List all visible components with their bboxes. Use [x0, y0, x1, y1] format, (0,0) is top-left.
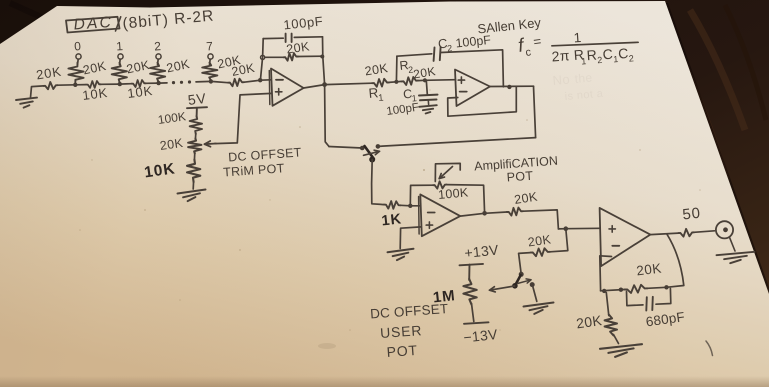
switch S1 blade — [365, 146, 374, 159]
switch S1 arrow — [364, 150, 380, 155]
wire node2 to U2 plus — [425, 79, 456, 82]
wire feedback right riser — [323, 37, 325, 85]
node feedback right junction — [320, 55, 324, 59]
label C2 100pF — [437, 33, 492, 54]
wire fb to 20K d (to ground) — [606, 293, 609, 316]
wire S1 pivot down to 1K — [372, 160, 384, 205]
node U1 output — [322, 82, 327, 87]
wire cap 100pF left — [263, 37, 283, 39]
wire fb right riser to output — [667, 234, 684, 287]
svg-text:USER: USER — [380, 322, 423, 341]
node R1-R2 junction — [394, 80, 398, 84]
node bit 2 junction — [156, 81, 160, 85]
resistor 1K — [384, 201, 401, 209]
svg-text:100K: 100K — [438, 185, 470, 202]
wire node2 down to C1 — [426, 80, 427, 94]
resistor 100K trim — [190, 116, 202, 134]
label 20K bit 7 — [216, 53, 242, 72]
wire U1 inverting input — [260, 79, 271, 81]
wire U3 output — [460, 213, 484, 216]
op-amp U1 — [269, 69, 303, 106]
ground U3 noninverting — [388, 249, 414, 260]
ground left termination — [16, 98, 37, 108]
+13V bar — [460, 264, 484, 280]
wire C2 left — [397, 54, 432, 56]
label 20K U4 feedback — [636, 261, 663, 279]
resistor R2 20K sallen-key — [402, 77, 419, 85]
label 20K d — [575, 312, 603, 331]
bit 0 terminal circle — [76, 54, 81, 59]
ground C1 — [419, 105, 437, 113]
node U2 output — [507, 85, 511, 89]
ground trim chain — [178, 190, 206, 202]
label DC OFFSET trim — [228, 145, 302, 164]
title box DAC — [66, 17, 121, 33]
label POT user — [386, 342, 418, 360]
svg-text:7: 7 — [206, 39, 214, 53]
wire node1 up to C2 — [395, 56, 398, 82]
label 20K R2 — [412, 64, 436, 81]
resistor 100K feedback pot — [433, 181, 447, 188]
resistor 20K bit 1 (vertical) — [112, 63, 127, 84]
bit 7 terminal label — [206, 39, 214, 53]
node S2 pivot — [512, 283, 518, 289]
resistor 20K bit 0 (vertical) — [68, 63, 83, 84]
wire U3 noninverting to ground — [400, 227, 421, 249]
capacitor C1 plates — [419, 95, 438, 101]
wire 1K to U3 inverting node — [401, 204, 411, 207]
node bit 1 junction — [118, 82, 122, 86]
wire bus node1-10K — [120, 83, 132, 85]
label 100K pot — [438, 185, 470, 202]
wire 100K fb right — [447, 185, 485, 214]
node R2-C1 junction — [423, 78, 427, 82]
label DC OFFSET user — [370, 301, 449, 321]
capacitor C2 — [434, 47, 441, 61]
resistor 50 ohm out — [679, 229, 695, 237]
wire 20K fb right — [298, 55, 322, 57]
svg-text:POT: POT — [506, 169, 534, 185]
title text (8biT) R-2R — [122, 8, 215, 33]
label +13V — [464, 241, 500, 261]
node S1 right contact — [376, 144, 381, 149]
wire corner to U4 node — [558, 228, 565, 230]
wire 100K-20K trim — [194, 133, 196, 140]
label TRIM POT — [223, 161, 285, 179]
ellipsis dots on bus — [172, 80, 191, 84]
node U1 inverting input — [258, 78, 262, 82]
wire C1 to ground — [427, 100, 429, 105]
paper specks — [79, 59, 701, 331]
pot wiper loop 100K — [435, 163, 460, 181]
op-amp U3 — [419, 194, 461, 236]
wire U1 output — [304, 85, 325, 88]
bit 1 terminal label — [116, 39, 124, 53]
erased pencil ghost — [552, 70, 604, 103]
output jack connector — [716, 221, 733, 238]
stray pen mark — [706, 341, 713, 356]
label SAllen Key — [477, 15, 542, 37]
label AmplifiCATION — [474, 154, 559, 174]
-13V bar — [464, 322, 489, 324]
label 5V — [187, 90, 208, 108]
label 1M (bold) — [432, 287, 456, 306]
paper bottom edge shadow — [0, 376, 769, 387]
ground jack — [717, 252, 755, 263]
formula denominator — [551, 45, 634, 67]
label 20K series — [230, 61, 256, 79]
formula fc= — [517, 33, 543, 59]
svg-text:No: No — [552, 72, 571, 88]
svg-text:2π R: 2π R — [551, 46, 585, 64]
wire U3 feedback riser — [410, 185, 433, 206]
label 20K R1 — [364, 61, 390, 79]
resistor 1M user pot — [463, 279, 476, 305]
ground S2 — [524, 303, 554, 314]
label 20K b — [527, 232, 552, 249]
ground U4 feedback — [600, 344, 642, 357]
wire U2 output — [490, 85, 534, 87]
op-amp U4 — [600, 208, 651, 266]
resistor 20K series (bus to U1) — [228, 79, 244, 87]
bit 7 lead wire — [209, 59, 212, 64]
switch S2 blade — [515, 275, 520, 285]
svg-text:1: 1 — [573, 30, 582, 46]
node U4 fb left — [602, 289, 606, 293]
wire 20K-10K trim — [193, 153, 195, 161]
resistor 10K a (bus) — [86, 81, 101, 88]
5V supply bar — [187, 107, 207, 117]
wire bus 10K-node2 — [146, 82, 159, 84]
wire U1 output down — [325, 85, 329, 147]
svg-text:50: 50 — [682, 205, 702, 224]
node U4 fb right — [664, 285, 668, 289]
node S1 left contact — [360, 146, 365, 151]
resistor 20K bit 7 (vertical) — [202, 63, 217, 81]
wire jack to ground — [730, 237, 736, 251]
wire U1 noninverting to trim wiper — [215, 93, 272, 143]
wire bus dots-node7 — [196, 80, 211, 83]
node U3 output — [482, 211, 487, 216]
wire U4 minus down to feedback row — [600, 256, 612, 291]
label 20K left termination — [35, 64, 63, 83]
switch S2 arrow — [518, 279, 532, 284]
faint smudge — [318, 343, 336, 349]
svg-text:5V: 5V — [187, 90, 208, 108]
bit 2 terminal label — [154, 39, 162, 53]
label 100pF C1 — [386, 102, 420, 118]
wire bus 10K-node1 — [101, 83, 120, 85]
wire 20K fb left — [265, 56, 284, 58]
pot wiper arrow 100K — [439, 167, 452, 179]
capacitor 680pF branch — [627, 289, 671, 311]
svg-text:10K: 10K — [82, 85, 109, 103]
label 10K trim (bold) — [143, 160, 176, 181]
node feedback left junction — [261, 55, 265, 59]
wire 20K to U4 corner — [523, 210, 558, 229]
resistor 20K d vertical — [605, 315, 617, 336]
wire node7-series 20K — [211, 81, 228, 82]
wire C2 right and down to U2 output — [441, 50, 504, 87]
bit 0 lead wire — [77, 59, 80, 64]
node bit 7 junction — [209, 79, 213, 83]
wire 1M to -13V bar — [472, 304, 474, 322]
label 20K bit 2 — [165, 57, 191, 76]
bit 0 terminal label — [74, 39, 82, 53]
wire 20K d to ground — [614, 335, 619, 344]
arrow to trim pot wiper — [205, 141, 217, 147]
resistor 10K trim — [187, 160, 200, 183]
resistor 20K U4 feedback — [625, 285, 648, 293]
label 10K a — [82, 85, 109, 103]
wire bus node0-10K — [75, 84, 86, 86]
bit 2 lead wire — [157, 59, 160, 64]
svg-text:2: 2 — [447, 43, 453, 54]
node bit 0 junction — [73, 83, 77, 87]
label 100K trim — [157, 109, 187, 127]
resistor 10K b (bus) — [132, 80, 147, 87]
label 50 — [682, 205, 702, 224]
svg-text:DAC: DAC — [73, 14, 113, 34]
resistor 20K bit 2 (vertical) — [150, 63, 165, 83]
wire U1 output to R1 — [325, 83, 372, 84]
svg-text:20K: 20K — [636, 261, 663, 279]
wire S2 pivot to 1M wiper arrow — [490, 286, 515, 292]
bit 1 terminal circle — [118, 54, 123, 59]
wire S1 right contact to SK output loop — [378, 138, 536, 147]
wire U3 inverting input — [410, 205, 420, 207]
wire U2 minus feedback notch — [448, 87, 517, 116]
resistor 20K stage out — [507, 208, 523, 216]
resistor 20K trim — [188, 139, 201, 154]
op-amp U2 — [455, 70, 490, 107]
wire U4 node down to 20K b — [550, 229, 568, 252]
label USER — [380, 322, 423, 341]
node U4 fb cap tap — [619, 288, 623, 292]
node U3 inverting input — [408, 204, 412, 208]
title text DAC — [73, 14, 113, 34]
resistor 20K b — [531, 248, 551, 256]
wire 50 to jack — [694, 231, 715, 233]
label 20K trim — [159, 136, 184, 153]
label 20K bit 1 — [125, 58, 151, 77]
bit 1 lead wire — [119, 59, 122, 64]
wire series 20K to U1 inverting node — [244, 80, 260, 82]
wire node to R2 — [396, 80, 401, 82]
resistor R1 20K sallen-key — [372, 79, 389, 87]
resistor 20K U1 feedback — [284, 53, 299, 61]
wire to switch S1 left contact — [329, 147, 362, 149]
formula numerator 1 — [573, 30, 582, 46]
label 20K U1 feedback — [285, 39, 310, 56]
wire U2 output down to feedback line — [534, 86, 536, 137]
svg-text:1: 1 — [378, 93, 385, 104]
resistor 20K left termination — [44, 82, 58, 89]
capacitor 100pF U1 feedback — [286, 34, 292, 43]
wire R2 to node2 — [418, 79, 425, 81]
label 20K stage out — [513, 189, 539, 207]
wire bus node2-dots — [159, 82, 167, 84]
label R2 — [399, 58, 414, 75]
svg-text:2: 2 — [154, 39, 162, 53]
wire fb left to 20K c — [601, 290, 625, 291]
label R1 — [368, 85, 384, 104]
node U4 noninverting input — [564, 226, 569, 231]
node S2 top contact — [519, 272, 524, 277]
svg-text:2: 2 — [628, 53, 634, 63]
wire U3 output to 20K — [485, 212, 507, 213]
wire cap 100pF right — [294, 36, 322, 39]
label 20K bit 0 — [82, 59, 108, 78]
wire termination to ground corner — [31, 86, 44, 98]
svg-text:0: 0 — [74, 39, 82, 53]
wire termination-node0 — [58, 84, 76, 86]
label 100pF U1 — [283, 13, 324, 32]
svg-text:1K: 1K — [381, 211, 403, 229]
switch S1 pivot blob — [369, 157, 375, 163]
svg-text:the: the — [574, 70, 593, 86]
svg-text:1: 1 — [116, 39, 124, 53]
label 1K (bold) — [381, 211, 403, 229]
svg-text:POT: POT — [386, 342, 418, 360]
wire 10K trim to ground — [192, 181, 194, 189]
wire R1 to node — [389, 81, 396, 84]
wire node to U4 plus — [566, 227, 600, 229]
svg-text:10K: 10K — [127, 83, 154, 101]
wire 20K c right — [648, 287, 667, 288]
wire feedback left riser — [260, 39, 263, 81]
node S2 right contact — [530, 282, 535, 287]
formula fraction bar — [552, 42, 638, 46]
bit 2 terminal circle — [156, 54, 161, 59]
wire 20K b to S2 — [519, 253, 531, 273]
label 10K b — [127, 83, 154, 101]
label C1 — [403, 87, 418, 104]
label POT (amplification) — [506, 169, 534, 185]
label -13V — [463, 326, 499, 346]
label 680pF — [645, 309, 686, 329]
wire U4 output — [650, 233, 678, 235]
bit 7 terminal circle — [208, 54, 213, 59]
wire S2 right to ground — [533, 287, 537, 302]
